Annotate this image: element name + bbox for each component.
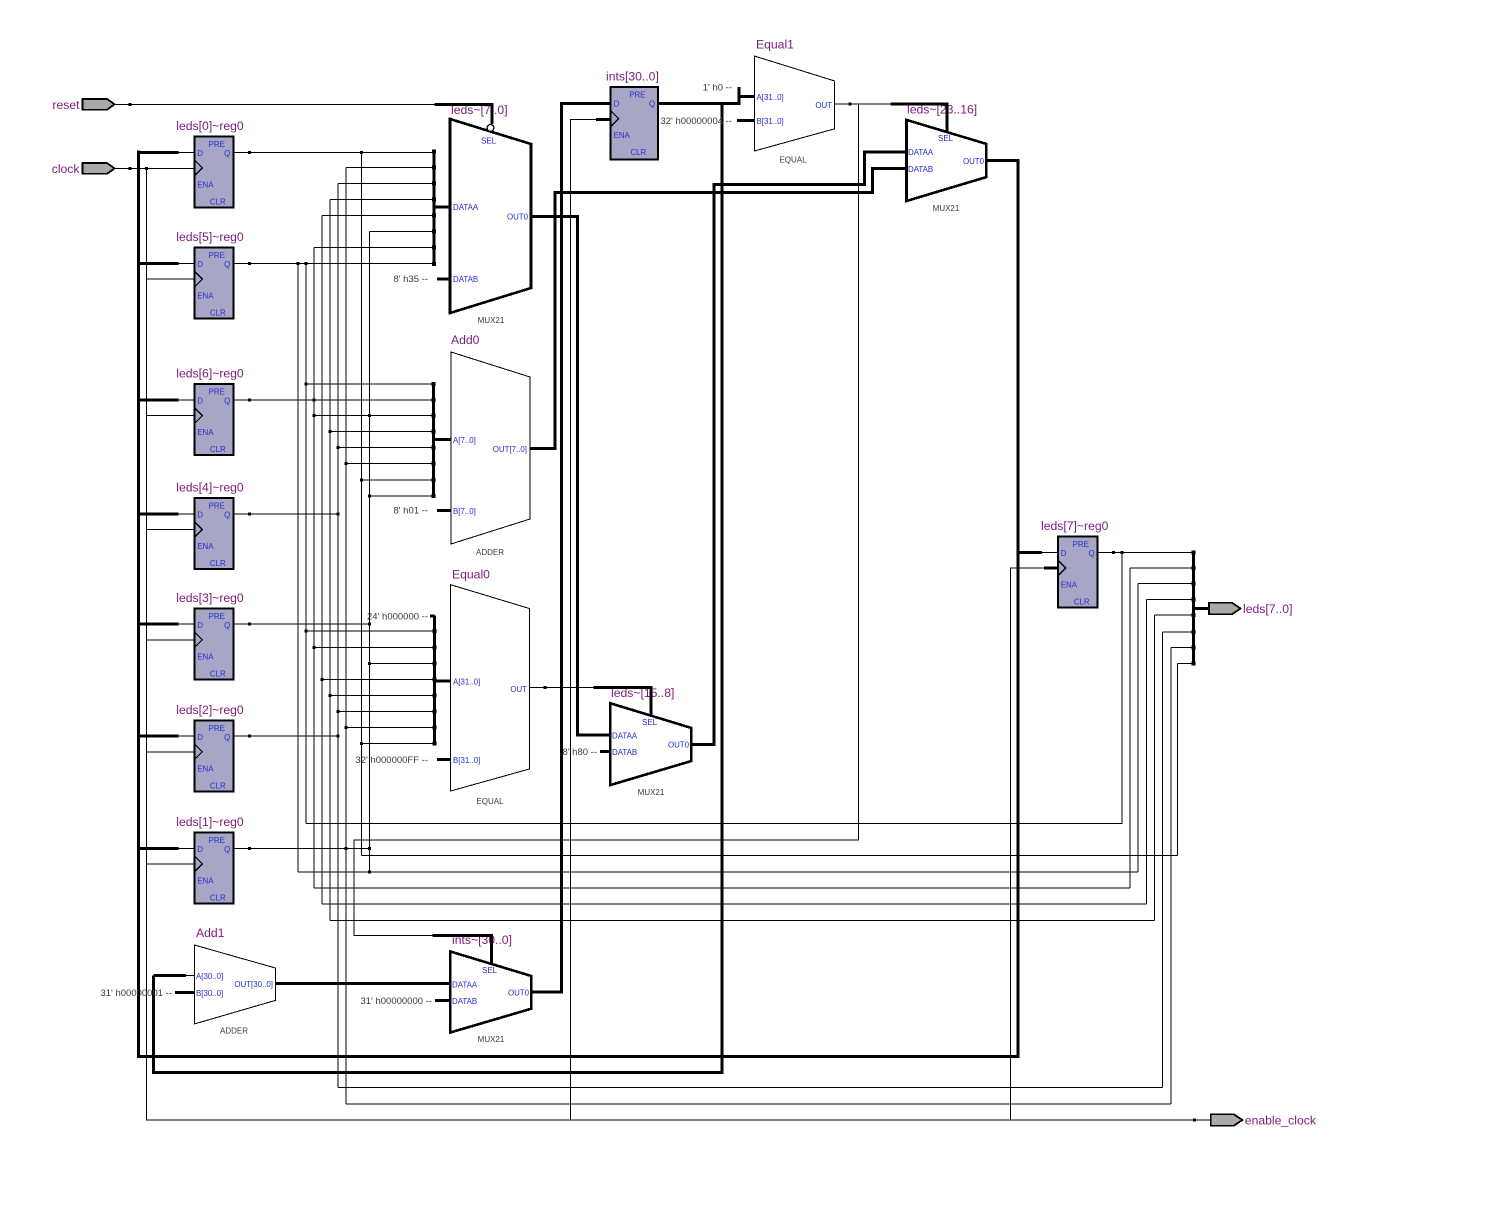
wire clock stub [146,278,194,280]
wire output tap y=615.2 [1154,614,1193,616]
wire bit row y=888.2 [314,887,1130,889]
svg-text:leds[3]~reg0: leds[3]~reg0 [176,591,244,605]
svg-text:MUX21: MUX21 [478,316,505,325]
input pin reset [52,98,114,112]
svg-text:OUT[30..0]: OUT[30..0] [234,980,273,989]
wire ints.Q to Equal1.A and down x=722 to Add1.A [154,104,723,1073]
wire clock stub [146,751,194,753]
svg-text:leds[4]~reg0: leds[4]~reg0 [176,481,244,495]
svg-text:OUT0: OUT0 [507,213,529,222]
wire bus leds-D trunk: riser x=138, bottom row y=1056, riser to leds[7].D [138,151,1018,1057]
wire output tap y=599.3 [1146,598,1193,600]
wire D stub into leds[3]~reg0 [138,623,178,626]
wire leds~[23..16].OUT0 to D trunk riser [986,161,1018,553]
register leds[3]~reg0 [176,591,244,680]
svg-text:CLR: CLR [210,559,226,568]
comparator Equal0 [450,568,529,807]
wire leds[7].D stub [1018,551,1042,554]
svg-text:Equal1: Equal1 [756,38,794,52]
svg-text:32' h000000FF --: 32' h000000FF -- [355,755,428,766]
wire Add0.A tap 4 [338,447,434,449]
output pin leds[7..0] [1209,602,1292,616]
svg-text:OUT0: OUT0 [963,157,985,166]
wire D stub into leds[5]~reg0 [138,262,178,265]
svg-text:8' h01 --: 8' h01 -- [393,506,428,517]
adder Add1 body [194,945,275,1024]
svg-text:ENA: ENA [197,428,214,437]
wire bit row y=920.3 [330,919,1155,921]
wire output tap y=583.5 [1138,583,1194,585]
svg-text:Q: Q [1089,549,1095,558]
svg-text:Q: Q [224,260,230,269]
svg-text:DATAA: DATAA [612,732,638,741]
mux ints~[30..0] MUX21 [450,933,531,1044]
register leds[7]~reg0 [1041,519,1109,608]
svg-text:SEL: SEL [482,966,498,975]
svg-text:CLR: CLR [210,781,226,790]
comparator Equal1 body [754,56,834,151]
svg-text:ENA: ENA [197,292,214,301]
svg-text:A[7..0]: A[7..0] [453,436,476,445]
wire leds[2].Q row to bundle [233,735,338,737]
svg-text:8' h80 --: 8' h80 -- [562,747,597,758]
svg-text:D: D [197,511,203,520]
svg-text:ints[30..0]: ints[30..0] [606,70,659,84]
svg-text:D: D [197,621,203,630]
wire bundle vertical x=361.4 [360,152,362,855]
register leds[4]~reg0 [176,481,244,570]
svg-text:EQUAL: EQUAL [476,797,504,806]
wire Add0.OUT up x=554.9 across y=192.4 to leds~[23..16].DATAB [529,169,906,449]
svg-text:31' h00000000 --: 31' h00000000 -- [360,996,432,1007]
svg-text:Q: Q [224,845,230,854]
wire bit row y=871.9 [298,871,1138,873]
comparator Equal0 body [450,585,529,792]
bus collector Equal0.A x=434.4 [434,615,450,744]
wire bundle vertical x=313.9 [313,248,315,889]
wire right riser x=1130.2 [1129,568,1131,888]
svg-text:leds[1]~reg0: leds[1]~reg0 [176,815,244,829]
wire right riser x=1162.4 [1161,632,1163,1088]
wire Add0.A tap 5 [346,463,434,465]
wire Equal0.A tap 3 [322,678,435,680]
svg-text:OUT: OUT [815,101,832,110]
wire D stub into leds[1]~reg0 [138,847,178,850]
svg-text:ADDER: ADDER [476,548,504,557]
svg-text:D: D [197,149,203,158]
adder Add0 body [451,352,530,544]
wire bit row y=1087.5 [338,1087,1163,1089]
svg-text:leds[7]~reg0: leds[7]~reg0 [1041,519,1109,533]
svg-text:8' h35 --: 8' h35 -- [393,274,428,285]
svg-text:CLR: CLR [210,309,226,318]
svg-text:PRE: PRE [209,836,225,845]
wire leds[3].Q row to bundle [233,623,369,625]
svg-text:PRE: PRE [209,251,225,260]
wire clock net: pin to leds[0] clk, riser x=146.3, bottom row to enable_clock [115,167,195,169]
wire leds[6].Q row into Add0.A tap1 [233,399,433,401]
wire leds~[7..0].DATAA tap 2 [338,183,434,185]
svg-text:Q: Q [224,149,230,158]
wire Add1.OUT to ints~[30..0].DATAA [275,982,450,985]
svg-text:Q: Q [224,397,230,406]
wire Equal1.OUT to leds~[23..16].SEL [835,103,891,105]
svg-text:B[31..0]: B[31..0] [757,117,784,126]
svg-text:PRE: PRE [1073,540,1089,549]
mux leds~[15..8] body [610,703,691,785]
wire output tap y=647.7 [1171,647,1194,649]
svg-text:CLR: CLR [210,669,226,678]
wire leds~[7..0].OUT0 down x=577.4 to leds~[15..8].DATAA [531,217,610,735]
wire bundle vertical x=345.8 [345,168,347,1104]
svg-text:leds[7..0]: leds[7..0] [1243,602,1292,616]
svg-text:D: D [1061,549,1067,558]
svg-text:OUT0: OUT0 [508,989,530,998]
wire right riser x=1177.6 [1177,664,1179,856]
wire leds~[7..0].DATAA tap 1 [346,166,434,168]
svg-text:ENA: ENA [197,652,214,661]
svg-text:ENA: ENA [614,131,631,140]
wire reset net to leds~[7..0] SEL bubble [115,103,435,105]
svg-text:enable_clock: enable_clock [1245,1114,1317,1128]
svg-text:CLR: CLR [210,445,226,454]
mux ints~[30..0] body [450,952,531,1033]
wire leds[4].Q row to bundle [233,513,338,515]
wire bit row y=1103.9 [346,1103,1171,1105]
svg-text:leds[6]~reg0: leds[6]~reg0 [176,367,244,381]
svg-text:A[31..0]: A[31..0] [453,678,480,687]
svg-text:ENA: ENA [197,542,214,551]
svg-text:B[30..0]: B[30..0] [196,989,223,998]
wire right riser x=1154.4 [1153,615,1155,920]
svg-text:SEL: SEL [642,718,658,727]
wire clock stub [146,863,194,865]
wire clock stub [146,639,194,641]
wire D stub into leds[6]~reg0 [138,399,178,402]
wire bundle vertical x=337.9 [337,184,339,1088]
svg-text:MUX21: MUX21 [478,1035,505,1044]
wire right riser x=1146.3 [1145,599,1147,904]
svg-text:CLR: CLR [630,148,646,157]
svg-text:D: D [614,100,620,109]
register leds[2]~reg0 [176,703,244,792]
svg-text:CLR: CLR [210,893,226,902]
wire leds[7] feedback row y=823.7 [306,552,1122,823]
svg-text:A[30..0]: A[30..0] [196,972,223,981]
wire ints~[30..0].SEL riser [433,936,492,965]
wire Add1.A stub [154,974,186,977]
svg-text:DATAB: DATAB [452,997,477,1006]
input pin clock [52,162,115,176]
wire leds~[7..0].DATAA tap 4 [322,215,434,217]
svg-text:Q: Q [224,621,230,630]
wire D stub into leds[0]~reg0 [138,151,178,154]
svg-text:D: D [197,397,203,406]
wire Equal0.A tap 2 [370,662,435,664]
svg-text:SEL: SEL [481,137,497,146]
wire leds[1].Q row to bundle [233,847,369,849]
svg-text:PRE: PRE [209,140,225,149]
wire leds[5].Q row into DATAA tap7 [233,263,433,265]
mux leds~[23..16] body [907,120,987,201]
wire Equal1 A constant collector [738,87,741,97]
bus collector leds[7..0] output x=1193.5 [1192,551,1195,666]
wire D stub into leds[2]~reg0 [138,735,178,738]
svg-text:A[31..0]: A[31..0] [757,93,784,102]
adder Add1 [194,926,275,1036]
wire D stub into leds[4]~reg0 [138,512,178,515]
register leds[6]~reg0 [176,367,244,456]
svg-text:PRE: PRE [209,724,225,733]
svg-text:PRE: PRE [629,91,645,100]
svg-text:Q: Q [224,733,230,742]
wire bit row y=855.4 [361,854,1177,856]
wire ints~[30..0].OUT0 up to ints.D [531,104,610,992]
wire leds~[7..0].DATAA tap 5 [370,231,434,233]
svg-text:Add1: Add1 [196,926,225,940]
svg-text:24' h000000 --: 24' h000000 -- [367,611,428,622]
svg-text:DATAA: DATAA [453,203,479,212]
svg-text:ENA: ENA [197,764,214,773]
wire right riser x=1170.8 [1170,648,1172,1104]
wire output tap y=567.9 [1130,567,1193,569]
wire Equal0.A tap 6 [346,727,435,729]
wire bundle vertical x=329.9 [329,200,331,921]
svg-text:ENA: ENA [1061,581,1078,590]
adder Add0 [451,333,530,557]
wire clock stub [146,415,194,417]
svg-text:OUT0: OUT0 [668,741,690,750]
svg-text:ENA: ENA [197,180,214,189]
svg-text:DATAB: DATAB [908,165,933,174]
wire leds~[7..0].DATAA tap 6 [314,247,434,249]
wire Equal0.A tap 4 [330,694,435,696]
svg-text:ENA: ENA [197,876,214,885]
svg-text:CLR: CLR [1074,598,1090,607]
bus collector Add0.A x=433.6 [434,382,451,495]
svg-text:PRE: PRE [209,612,225,621]
svg-text:CLR: CLR [210,197,226,206]
wire Add0.A tap 7 [370,495,434,497]
svg-text:Add0: Add0 [451,333,480,347]
wire Equal0.A tap 1 [314,646,435,648]
svg-text:Q: Q [649,100,655,109]
register leds[1]~reg0 [176,815,244,904]
svg-text:MUX21: MUX21 [638,788,665,797]
svg-text:OUT[7..0]: OUT[7..0] [493,445,527,454]
wire bundle vertical x=305.9 [305,264,307,824]
svg-text:DATAB: DATAB [612,748,637,757]
wire clock riser to ints clk x=570.6 [571,120,596,1120]
svg-text:B[31..0]: B[31..0] [453,756,480,765]
svg-text:leds[5]~reg0: leds[5]~reg0 [176,230,244,244]
wire bundle vertical x=298.0 [297,264,299,872]
wire clock riser to leds[7] clk x=1010.4 [1010,568,1044,1120]
svg-text:Q: Q [224,511,230,520]
wire Equal0.A tap 7 [361,743,434,745]
svg-text:Equal0: Equal0 [452,568,490,582]
mux leds~[7..0] MUX21 [450,103,531,325]
wire output tap y=663.7 [1178,663,1194,665]
wire Add0.A tap 2 [314,415,434,417]
svg-text:1' h0 --: 1' h0 -- [703,82,732,93]
wire Equal0.A tap 5 [338,710,435,712]
wire leds output stub to pin [1194,607,1210,610]
svg-text:leds[0]~reg0: leds[0]~reg0 [176,119,244,133]
wire Equal0.OUT to leds~[15..8].SEL [530,687,594,689]
svg-text:B[7..0]: B[7..0] [453,507,476,516]
wire bundle vertical x=369.6 [369,232,371,872]
wire leds[0].Q row into DATAA tap0 [233,151,433,153]
comparator Equal1 [754,38,834,165]
bus collector leds~[7..0].DATAA x=433.8 [434,151,450,263]
wire clock stub [146,529,194,531]
mux leds~[7..0] body [450,119,531,313]
wire leds~[7..0].DATAA tap 3 [330,199,434,201]
svg-text:PRE: PRE [209,502,225,511]
wire right riser x=1137.8 [1137,584,1139,872]
svg-text:D: D [197,733,203,742]
svg-text:DATAA: DATAA [908,148,934,157]
mux leds~[15..8] MUX21 [610,686,691,797]
wire ints.Q jog into Equal1.A [722,97,754,104]
wire bundle vertical x=321.9 [321,216,323,905]
svg-text:D: D [197,845,203,854]
svg-text:leds[2]~reg0: leds[2]~reg0 [176,703,244,717]
svg-text:DATAB: DATAB [453,275,478,284]
output pin enable_clock [1211,1114,1317,1128]
svg-text:MUX21: MUX21 [933,204,960,213]
svg-text:ADDER: ADDER [220,1027,248,1036]
svg-text:SEL: SEL [938,134,954,143]
wire Add0.A tap 3 [330,431,434,433]
svg-text:DATAA: DATAA [452,981,478,990]
wire output tap y=631.8 [1162,631,1193,633]
wire Equal0.A tap 0 [306,630,435,632]
svg-text:clock: clock [52,162,81,176]
mux leds~[23..16] MUX21 [907,103,987,214]
svg-text:32' h00000004 --: 32' h00000004 -- [660,116,732,127]
wire leds~[15..8].OUT0 up x=713.8 across y=184.4 to leds~[23..16].DATAA [691,152,906,745]
svg-text:reset: reset [52,98,80,112]
svg-text:D: D [197,260,203,269]
wire bit row y=904.1 [322,903,1146,905]
register leds[0]~reg0 [176,119,244,208]
svg-text:PRE: PRE [209,388,225,397]
svg-text:31' h00000001 --: 31' h00000001 -- [100,988,172,999]
wire Add0.A tap 6 [361,479,433,481]
svg-text:EQUAL: EQUAL [779,156,807,165]
wire leds[7].Q row to collector [1098,551,1194,553]
register leds[5]~reg0 [176,230,244,319]
svg-text:OUT: OUT [510,685,527,694]
wire Equal1.OUT branch down x=858.4 row y=839.8 to x=353.9 down to ints~SEL row [354,104,859,935]
register ints[30..0] [606,70,659,160]
wire Add0.A tap 0 [306,383,434,385]
